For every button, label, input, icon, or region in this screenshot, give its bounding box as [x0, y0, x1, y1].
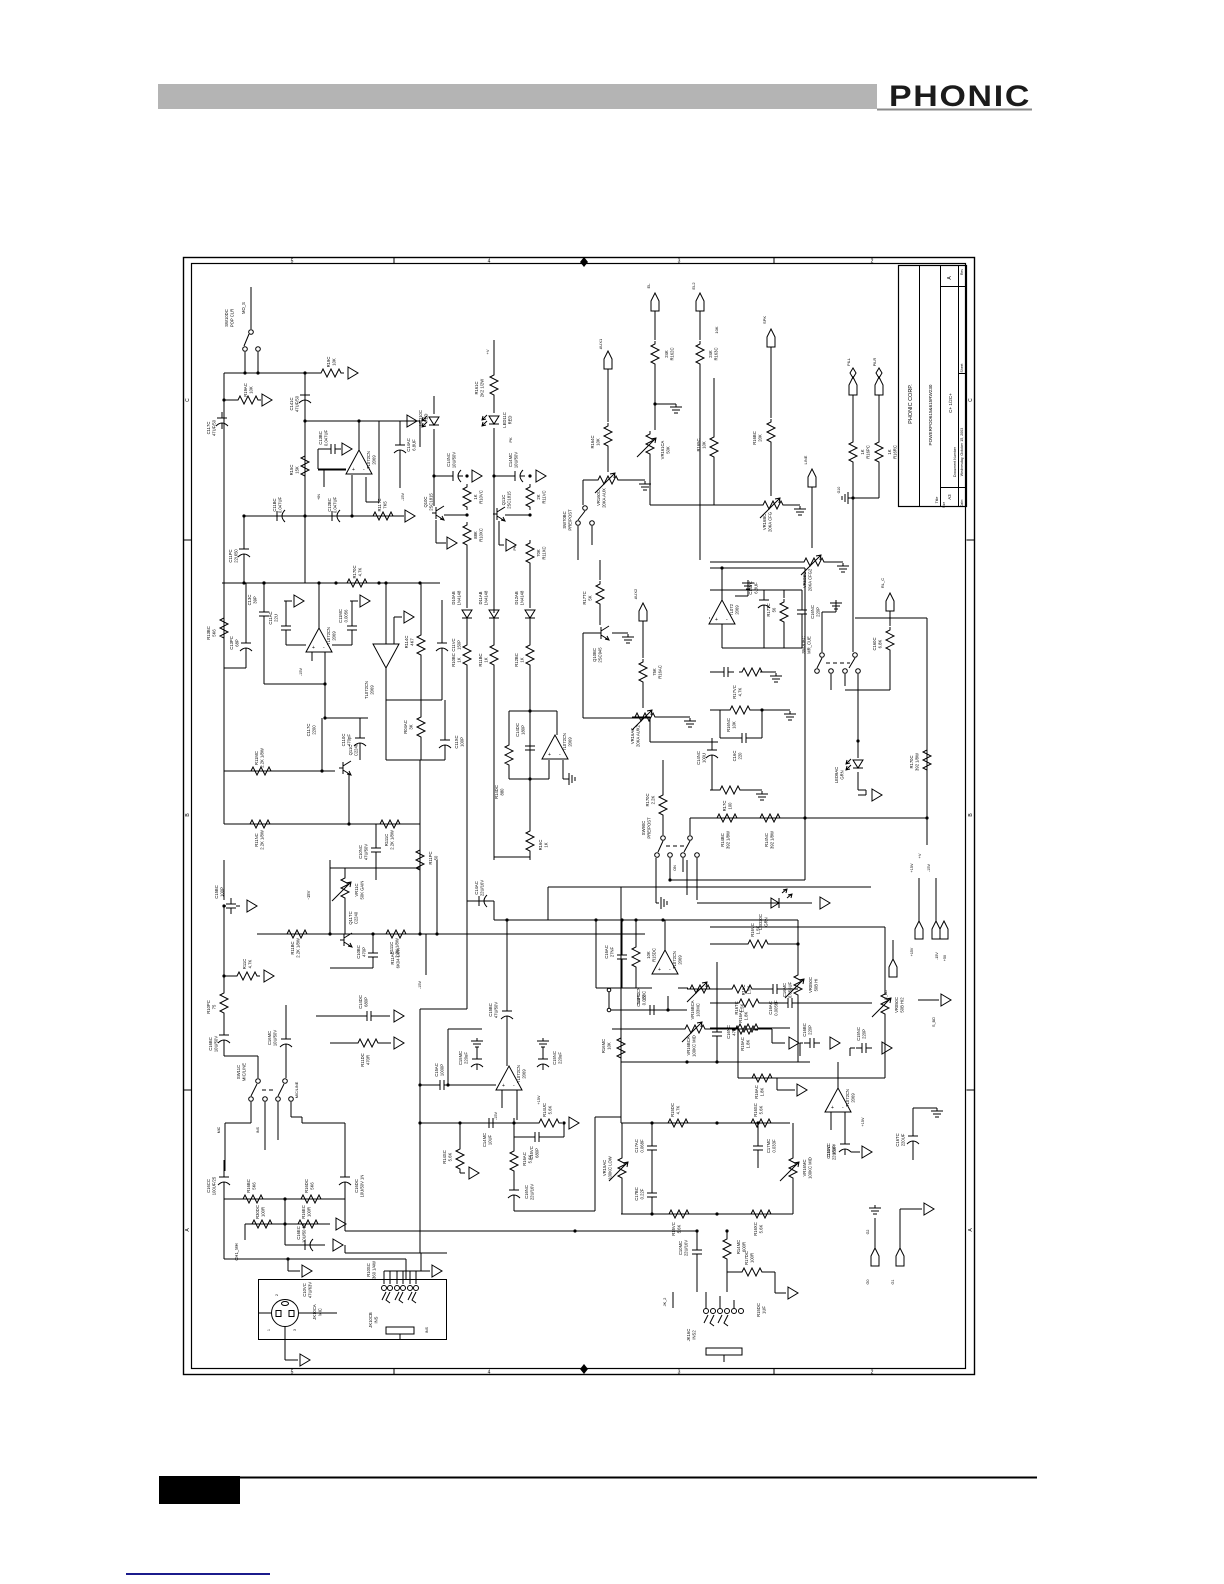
wire — [690, 817, 927, 819]
resistor resistor R34 — [757, 814, 783, 822]
junction — [715, 1212, 718, 1215]
svg-text:VR16AC: VR16AC — [630, 728, 635, 744]
svg-text:22U/16V: 22U/16V — [684, 1240, 689, 1257]
svg-text:C12BC: C12BC — [327, 498, 332, 512]
wire — [713, 378, 715, 434]
logo underline — [877, 109, 1032, 111]
capacitor capacitor C5 (polarized) — [271, 510, 287, 522]
wire — [385, 668, 387, 700]
transistor transistor Q1 — [432, 506, 444, 520]
svg-text:C16EC: C16EC — [296, 1226, 301, 1240]
potentiometer wiper potentiometer VR1 — [595, 473, 615, 493]
wire — [775, 1292, 786, 1294]
ground ground GND3 — [794, 506, 806, 515]
svg-text:R16NC: R16NC — [726, 718, 731, 732]
svg-text:C17BC: C17BC — [634, 1187, 639, 1201]
resistor resistor R26 — [490, 642, 498, 668]
junction — [715, 1060, 718, 1063]
wire — [419, 421, 421, 447]
resistor resistor R13 — [849, 439, 857, 465]
svg-text:1000P: 1000P — [440, 1064, 445, 1076]
wire — [783, 625, 785, 648]
svg-text:R16BC: R16BC — [752, 431, 757, 445]
svg-text:70K: 70K — [536, 549, 541, 557]
ground ground GND7 — [742, 580, 754, 589]
resistor resistor R64 — [735, 1024, 761, 1032]
switch contact switch contact SW4 — [583, 506, 588, 511]
junction — [528, 709, 531, 712]
svg-text:R16DC: R16DC — [304, 1179, 309, 1193]
wire — [912, 1108, 914, 1131]
ground ground GND6 — [684, 718, 696, 727]
switch contact switch contact SW15 — [815, 669, 820, 674]
wire — [583, 632, 601, 634]
svg-text:1K: 1K — [887, 449, 892, 454]
diode diode D3 — [525, 610, 535, 618]
wire — [595, 948, 597, 988]
connector connector J7 — [875, 377, 883, 395]
wire — [913, 1107, 937, 1109]
wire — [599, 607, 601, 625]
wire — [889, 653, 891, 690]
svg-text:+15V: +15V — [861, 1117, 865, 1126]
capacitor capacitor C26 — [368, 947, 378, 963]
wire — [710, 567, 805, 569]
svg-text:R15DC: R15DC — [670, 1103, 675, 1117]
potentiometer wiper potentiometer VR4 — [801, 555, 821, 575]
svg-text:R14MC: R14MC — [736, 1240, 741, 1254]
junction — [465, 513, 468, 516]
connector connector pin P28 — [797, 1084, 807, 1096]
svg-text:5.6K: 5.6K — [448, 1152, 453, 1161]
wire — [529, 668, 531, 712]
svg-text:R16AC: R16AC — [754, 1085, 759, 1099]
wire — [935, 878, 937, 921]
wire — [323, 469, 325, 487]
wire — [710, 589, 802, 591]
svg-text:R16MC: R16MC — [601, 1039, 606, 1053]
wire — [583, 479, 595, 481]
wire — [466, 668, 468, 712]
wire — [263, 583, 265, 606]
resistor resistor R47 — [298, 1195, 324, 1203]
wire — [542, 1047, 544, 1054]
title block outline — [899, 266, 967, 507]
svg-text:VR16MC: VR16MC — [802, 1160, 807, 1177]
wire — [763, 590, 765, 594]
svg-text:C11VC: C11VC — [451, 638, 456, 651]
svg-text:VR15AC: VR15AC — [602, 1160, 607, 1176]
svg-text:INS: INS — [374, 1316, 379, 1323]
wire — [405, 1259, 407, 1279]
capacitor capacitor C39 — [647, 1187, 657, 1203]
wire — [563, 1123, 565, 1137]
jack contact — [718, 1315, 728, 1326]
svg-text:CH1_MH: CH1_MH — [234, 1243, 239, 1260]
svg-text:R162C: R162C — [670, 347, 675, 360]
wire — [286, 644, 306, 646]
transistor transistor Q5 — [340, 933, 352, 947]
wire — [548, 760, 550, 779]
wire — [441, 651, 443, 700]
junction — [242, 581, 245, 584]
wire — [420, 583, 422, 632]
connector connector J12 — [940, 921, 948, 939]
switch contact switch contact SW19 — [256, 1079, 261, 1084]
resistor potentiometer VR6 — [341, 875, 349, 901]
svg-text:5.6K: 5.6K — [759, 1224, 764, 1233]
svg-text:392 1/8W: 392 1/8W — [915, 753, 920, 771]
svg-text:68P: 68P — [235, 639, 240, 647]
svg-text:20KA AUX: 20KA AUX — [602, 488, 607, 508]
ground ground GND9 — [784, 711, 796, 720]
wire — [250, 1102, 252, 1123]
wire — [372, 963, 374, 968]
wire — [621, 920, 623, 949]
wire — [493, 618, 495, 642]
wire — [726, 1262, 728, 1292]
svg-text:1UF: 1UF — [762, 1306, 767, 1314]
switch contact switch contact SW32 — [607, 1008, 611, 1012]
wire — [318, 469, 346, 471]
resistor resistor R19 — [248, 767, 274, 775]
svg-text:PILL: PILL — [847, 358, 851, 366]
schematic inner border — [192, 264, 966, 1369]
wire — [710, 943, 745, 945]
wire — [223, 1043, 225, 1056]
svg-text:220P: 220P — [862, 1029, 867, 1039]
svg-text:PRE/POST: PRE/POST — [647, 817, 652, 839]
svg-text:10U/50V: 10U/50V — [514, 452, 519, 469]
wire — [710, 789, 717, 791]
switch contact switch contact SW20 — [283, 1079, 288, 1084]
resistor resistor R14 — [875, 439, 883, 465]
junction — [303, 514, 306, 517]
wire — [375, 858, 377, 880]
junction — [222, 398, 225, 401]
svg-text:10K: 10K — [249, 386, 254, 394]
svg-text:C16CC: C16CC — [206, 1179, 211, 1193]
svg-text:R14DC: R14DC — [494, 785, 499, 799]
wire — [720, 737, 736, 739]
wire — [514, 1210, 595, 1212]
svg-text:R16EC: R16EC — [301, 1205, 306, 1219]
connector connector pin P18 — [394, 1037, 404, 1049]
resistor resistor R38 — [717, 786, 743, 794]
svg-text:5.6K: 5.6K — [677, 1224, 682, 1233]
svg-text:C15PC: C15PC — [636, 993, 641, 1007]
net flag — [876, 368, 882, 378]
resistor VR15MC — [682, 1025, 708, 1033]
svg-text:C2240: C2240 — [354, 743, 359, 756]
wire — [224, 1258, 406, 1260]
svg-text:-15V: -15V — [935, 952, 939, 960]
junction — [851, 496, 854, 499]
resistor resistor R63 — [736, 999, 762, 1007]
ground ground GND10 — [756, 791, 768, 800]
wire — [696, 1258, 698, 1292]
wire — [359, 718, 361, 734]
junction — [562, 1121, 565, 1124]
wire — [508, 711, 510, 742]
wire — [649, 717, 651, 742]
wire — [582, 633, 584, 718]
wire — [285, 634, 287, 645]
junction — [418, 1083, 421, 1086]
wire — [658, 716, 690, 718]
XLR connector XLR connector JK1 — [272, 1300, 299, 1327]
junction — [925, 816, 928, 819]
switch blade SW11C — [278, 1084, 284, 1096]
capacitor capacitor C38 — [753, 1140, 763, 1156]
svg-text:R15VC: R15VC — [671, 1222, 676, 1236]
svg-text:10U/50V: 10U/50V — [452, 452, 457, 469]
resistor potentiometer VR7 — [687, 985, 713, 993]
svg-text:1K: 1K — [457, 657, 462, 662]
svg-text:JK_2: JK_2 — [663, 1298, 667, 1307]
net flag — [850, 368, 856, 378]
svg-text:4: 4 — [488, 259, 491, 265]
svg-text:C141C: C141C — [289, 397, 294, 410]
wire — [400, 420, 404, 422]
wire — [621, 1181, 623, 1214]
wire — [865, 790, 867, 795]
svg-text:22U: 22U — [274, 614, 279, 622]
capacitor capacitor C10 — [259, 606, 269, 622]
junction — [350, 514, 353, 517]
wire — [224, 372, 318, 374]
connector connector J3 — [696, 293, 704, 311]
resistor resistor R50 — [632, 944, 640, 970]
wire — [419, 824, 421, 934]
junction — [796, 942, 799, 945]
svg-text:C16NC: C16NC — [524, 1185, 529, 1199]
capacitor capacitor C3 — [325, 444, 341, 454]
svg-text:1K: 1K — [544, 842, 549, 847]
wire — [372, 934, 374, 947]
svg-text:100R: 100R — [750, 1253, 755, 1263]
svg-text:R16AC: R16AC — [658, 665, 663, 679]
svg-text:75: 75 — [212, 1004, 217, 1009]
resistor resistor R48 — [249, 1220, 275, 1228]
svg-text:1K: 1K — [860, 449, 865, 454]
junction — [668, 878, 671, 881]
connector connector pin P30 — [882, 1042, 892, 1054]
resistor resistor R37 — [727, 706, 753, 714]
wire — [244, 352, 246, 373]
wire — [224, 823, 420, 825]
svg-text:R111C: R111C — [384, 834, 389, 846]
capacitor capacitor C6 (polarized) — [326, 510, 342, 522]
capacitor capacitor C8 (polarized) — [447, 470, 463, 482]
capacitor capacitor C25 (polarized) — [218, 1029, 230, 1046]
svg-text:LINE: LINE — [803, 455, 808, 464]
wire — [889, 611, 891, 626]
svg-text:20KA AUX2: 20KA AUX2 — [636, 724, 641, 747]
wire — [783, 988, 798, 990]
junction — [384, 581, 387, 584]
wire — [330, 1042, 355, 1044]
svg-text:R11NC: R11NC — [254, 833, 259, 846]
wire — [760, 671, 776, 673]
wire — [800, 1042, 803, 1044]
svg-text:1.8K: 1.8K — [746, 1039, 751, 1048]
svg-text:S_BD: S_BD — [932, 1017, 936, 1027]
wire — [284, 1352, 286, 1360]
svg-text:39P: 39P — [253, 596, 258, 604]
wire — [892, 940, 894, 959]
svg-text:+: + — [352, 467, 355, 473]
svg-text:0.056UF: 0.056UF — [788, 982, 793, 999]
wire — [761, 1027, 790, 1029]
ground GND — [869, 1205, 881, 1214]
svg-text:+: + — [548, 752, 551, 758]
potentiometer wiper potentiometer VR6 — [332, 882, 351, 901]
wire — [330, 867, 420, 869]
svg-text:D11AB: D11AB — [478, 591, 483, 604]
svg-text:56: 56 — [772, 607, 777, 612]
border tick — [184, 539, 975, 541]
capacitor capacitor C37 — [647, 1140, 657, 1156]
capacitor capacitor C9 (polarized) — [240, 637, 252, 654]
connector connector J10 — [915, 921, 923, 939]
resistor resistor R22 — [416, 847, 424, 873]
wire — [264, 1102, 266, 1150]
svg-text:C117C: C117C — [206, 422, 211, 435]
svg-text:Date:: Date: — [960, 499, 964, 507]
wire — [727, 1271, 739, 1273]
wire — [710, 561, 801, 563]
wire — [696, 858, 698, 900]
svg-text:3: 3 — [678, 259, 681, 265]
svg-text:R11VC: R11VC — [542, 490, 547, 503]
resistor resistor R10 — [696, 341, 704, 367]
ground GND — [830, 600, 842, 609]
connector connector pin P9 — [360, 595, 370, 607]
wire — [257, 933, 645, 935]
connector connector pin P33 — [924, 1203, 934, 1215]
wire — [329, 860, 331, 934]
svg-text:R16BC: R16BC — [246, 1179, 251, 1193]
wire — [801, 590, 803, 604]
ground GND — [567, 773, 575, 785]
svg-text:C13C: C13C — [247, 595, 252, 606]
wire — [686, 860, 688, 895]
wire — [285, 1048, 287, 1078]
wire — [642, 621, 644, 658]
wire — [344, 1245, 346, 1253]
svg-text:10K: 10K — [714, 326, 719, 333]
wire — [757, 1123, 759, 1140]
capacitor capacitor C42 (polarized) — [471, 1053, 483, 1070]
wire — [710, 504, 760, 506]
svg-text:0.047UF: 0.047UF — [324, 430, 329, 447]
connector connector J9 — [886, 593, 894, 611]
wire — [321, 718, 323, 771]
wire — [822, 611, 836, 613]
svg-text:10U/50V: 10U/50V — [273, 1030, 278, 1047]
svg-text:2069: 2069 — [372, 455, 377, 465]
svg-text:5: 5 — [291, 1370, 294, 1376]
junction — [317, 581, 320, 584]
svg-text:0.047UF: 0.047UF — [333, 497, 338, 514]
svg-text:1N4148: 1N4148 — [484, 590, 489, 605]
svg-text:JK16C: JK16C — [686, 1329, 691, 1342]
wire — [466, 547, 468, 608]
svg-text:+15V: +15V — [910, 947, 914, 956]
op-amp op-amp U3 — [373, 644, 399, 668]
svg-text:R16SC: R16SC — [753, 1103, 758, 1117]
junction — [458, 1121, 461, 1124]
switch blade SW11C — [251, 1084, 257, 1096]
resistor potentiometer VR8 — [794, 972, 802, 998]
svg-text:R11TC: R11TC — [377, 499, 382, 512]
wire — [763, 610, 765, 648]
svg-text:220UF: 220UF — [901, 1133, 906, 1146]
junction — [594, 918, 597, 921]
svg-text:10U/50V: 10U/50V — [214, 1036, 219, 1053]
switch blade — [244, 334, 249, 346]
svg-text:20KA CFG2: 20KA CFG2 — [808, 568, 813, 591]
svg-text:R10PC: R10PC — [206, 1000, 211, 1014]
wire — [433, 396, 435, 414]
svg-text:5K: 5K — [588, 595, 593, 600]
wire — [419, 873, 421, 900]
switch contact switch contact SW17 — [843, 669, 848, 674]
wire — [257, 1056, 259, 1078]
wire — [415, 1271, 417, 1284]
svg-text:R164C: R164C — [590, 435, 595, 448]
switch contact switch contact SW37 — [732, 1309, 737, 1314]
svg-text:470pF: 470pF — [347, 734, 352, 746]
resistor resistor R44 — [383, 930, 409, 938]
wire — [612, 1028, 682, 1030]
footer black box — [159, 1476, 240, 1504]
svg-text:SPK: SPK — [762, 316, 767, 324]
svg-text:-15V: -15V — [306, 890, 311, 899]
schematic outer border — [184, 258, 975, 1375]
wire — [654, 311, 656, 340]
svg-text:2SC1815: 2SC1815 — [507, 491, 512, 509]
wire — [318, 468, 346, 470]
capacitor capacitor C16 — [371, 842, 381, 858]
connector connector pin P15 — [247, 900, 257, 912]
capacitor capacitor C29 (polarized) — [218, 1171, 230, 1188]
jack contact — [382, 1292, 390, 1303]
svg-text:TL072CN: TL072CN — [672, 951, 677, 969]
junction — [650, 1121, 653, 1124]
wire — [874, 1218, 876, 1248]
junction — [620, 918, 623, 921]
svg-text:10K: 10K — [596, 438, 601, 446]
wire — [223, 373, 225, 583]
svg-text:-15V: -15V — [494, 1112, 498, 1120]
svg-text:470R: 470R — [366, 1055, 371, 1065]
wire — [851, 1151, 860, 1153]
svg-text:C15VC: C15VC — [826, 1145, 831, 1159]
header gray bar — [158, 84, 877, 109]
svg-text:R11PC: R11PC — [428, 851, 433, 864]
svg-text:VR11C: VR11C — [354, 883, 359, 896]
wire — [350, 600, 358, 602]
wire — [912, 1111, 914, 1125]
svg-text:Q11C: Q11C — [348, 745, 353, 756]
svg-text:C16MC: C16MC — [782, 983, 787, 997]
switch link (dashed) — [826, 662, 850, 664]
capacitor capacitor C19 (polarized) — [758, 594, 770, 611]
svg-text:+V: +V — [917, 853, 922, 858]
junction — [725, 1229, 728, 1232]
